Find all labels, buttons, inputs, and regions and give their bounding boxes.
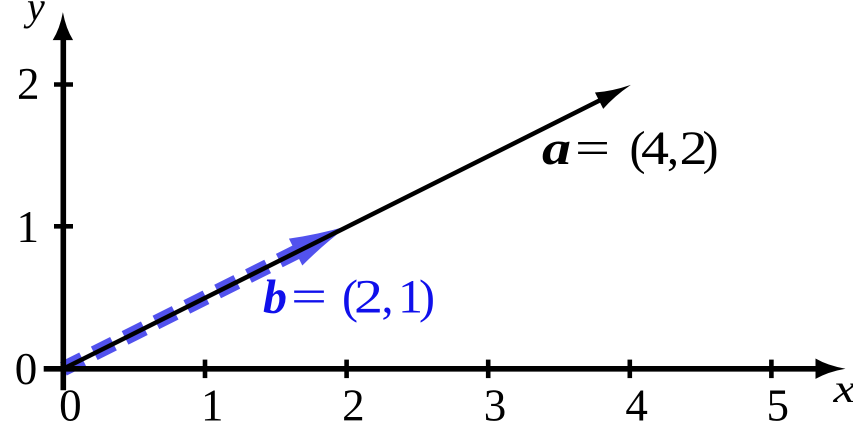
x-axis tick at 1	[203, 360, 208, 379]
svg-text:4: 4	[641, 122, 669, 175]
svg-text:,: ,	[382, 271, 394, 324]
svg-text:y: y	[23, 0, 45, 29]
svg-text:0: 0	[15, 344, 38, 394]
vector b dashed blue line	[63, 252, 296, 369]
y-axis arrowhead	[53, 12, 73, 40]
svg-text:3: 3	[484, 381, 507, 424]
x-axis arrowhead	[816, 359, 846, 379]
svg-text:b: b	[263, 271, 287, 324]
y-axis tick at 1	[54, 224, 73, 229]
svg-text:,: ,	[667, 122, 679, 175]
svg-text:0: 0	[59, 381, 82, 424]
svg-text:2: 2	[17, 59, 40, 109]
svg-text:=: =	[291, 271, 327, 324]
label b = (2, 1)	[263, 271, 435, 324]
x-axis line	[44, 366, 822, 372]
svg-text:=: =	[575, 122, 610, 175]
svg-text:4: 4	[625, 381, 648, 424]
svg-text:): )	[703, 122, 719, 175]
x-axis tick at 4	[627, 360, 632, 379]
svg-text:1: 1	[201, 381, 224, 424]
x-axis tick at 2	[344, 360, 349, 379]
x-axis tick at 5	[769, 360, 774, 379]
svg-text:1: 1	[17, 202, 40, 252]
svg-text:2: 2	[354, 271, 383, 324]
svg-text:): )	[419, 271, 435, 324]
y-axis tick at 2	[54, 82, 73, 87]
vector a line	[63, 97, 607, 369]
svg-text:5: 5	[766, 381, 789, 424]
vector b arrowhead	[289, 213, 355, 266]
svg-text:2: 2	[342, 381, 365, 424]
y-axis line	[60, 36, 66, 390]
label a = (4, 2)	[542, 122, 718, 175]
x-axis tick at 3	[486, 360, 491, 379]
svg-text:a: a	[542, 122, 571, 175]
svg-text:x: x	[832, 366, 853, 411]
vector a arrowhead	[595, 77, 635, 109]
